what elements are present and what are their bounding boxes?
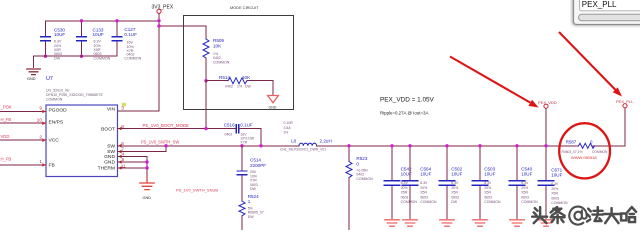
svg-text:VIN: VIN [107,106,116,112]
ground GND2 mode [268,96,279,103]
svg-text:WWW.080918: WWW.080918 [571,155,597,160]
svg-text:GND: GND [104,154,115,160]
svg-text:C514: C514 [250,158,261,163]
svg-text:0: 0 [356,161,359,166]
pin arrow PGOOD [42,110,45,114]
watermark glyph at [569,207,586,225]
svg-text:10UF: 10UF [451,171,462,176]
svg-text:VCC: VCC [49,138,60,144]
red highlight circle around R587 [559,123,610,178]
svg-text:R523: R523 [356,156,367,161]
svg-text:6.3V: 6.3V [484,181,492,185]
svg-text:X5R: X5R [551,192,558,196]
resistor R509 [203,39,209,58]
pin arrow SW7 [118,150,121,154]
wire 3v3 rail left [46,20,160,22]
wire R509 bottom lead [205,58,207,81]
junction c133 bottom [80,55,83,58]
svg-text:6.3V: 6.3V [521,181,529,185]
capacitor C540 [509,144,538,226]
wire SW pin6 [118,145,300,147]
wire PEX_VDD vertical [545,108,547,180]
svg-text:3V3_PEX: 3V3_PEX [152,4,174,10]
svg-text:20%: 20% [521,186,528,190]
svg-text:THERM: THERM [98,166,115,172]
svg-text:9: 9 [39,106,42,112]
ground GND3 under IC [140,177,154,190]
junction c516 return [259,144,262,147]
watermark glyph tiao [551,207,565,223]
svg-text:U7: U7 [46,76,53,82]
svg-text:H_FB: H_FB [1,117,12,122]
pin arrow VCC [42,138,45,142]
svg-text:2.2uH: 2.2uH [320,138,332,143]
capacitor C564 [402,144,437,226]
dialog body [574,0,640,25]
wire BOOT net [118,128,237,130]
wire PGOOD [0,111,46,113]
svg-text:EN/PS: EN/PS [49,119,64,125]
wire terminal down [158,14,160,27]
dialog text field [580,0,640,11]
svg-text:COMMON: COMMON [521,200,538,204]
svg-text:SW: SW [107,144,115,150]
capacitor C530 [41,37,50,41]
capacitor C516 [236,125,239,133]
svg-text:0603: 0603 [484,195,492,199]
wire EN/PS [0,122,46,124]
resistor R514 [228,78,247,84]
svg-text:R0603_07,1%: R0603_07,1% [562,150,583,154]
svg-text:PS_1V0_BOOT_MODE: PS_1V0_BOOT_MODE [143,123,190,128]
svg-text:0603: 0603 [401,195,409,199]
wire C514 top lead [241,146,243,171]
svg-text:COMMON: COMMON [213,60,230,64]
svg-text:H_FB: H_FB [1,157,12,162]
svg-text:CHL_IHLP2020CZ_DWN_V01: CHL_IHLP2020CZ_DWN_V01 [280,148,326,152]
svg-text:16V: 16V [127,40,134,44]
svg-text:6.3V: 6.3V [451,181,459,185]
wire R509 top lead [205,26,207,39]
junction boot/mode [204,127,207,130]
wire cap C133 stubs [81,21,83,56]
svg-text:X5R: X5R [521,191,528,195]
pin arrow THERM [118,166,121,170]
mode circuit frame [184,16,294,110]
pin arrow FB [42,163,45,167]
svg-text:2200PF: 2200PF [250,163,266,168]
svg-text:0.1UF: 0.1UF [124,32,137,37]
yellow mark pin3 [122,103,126,107]
svg-text:1%: 1% [237,85,242,89]
svg-text:3.5A: 3.5A [284,126,292,130]
svg-text:10: 10 [37,117,43,123]
junction gnd5 [145,160,148,163]
dialog capsule bar [579,14,640,20]
wire R514 right lead to gnd [247,81,273,95]
wire R524 bottom [241,216,243,230]
wire rail right of R587 [592,108,625,146]
svg-text:R509: R509 [213,38,224,43]
svg-text:COMMON: COMMON [401,200,418,204]
svg-text:0603: 0603 [521,195,529,199]
watermark glyph da [604,208,620,223]
svg-text:6.3V: 6.3V [420,181,428,185]
svg-text:0603: 0603 [420,195,428,199]
junction sw merge [164,144,167,147]
svg-text:PS_1V0_SWTH_SNUB: PS_1V0_SWTH_SNUB [176,188,218,193]
svg-text:0603: 0603 [551,196,559,200]
capacitor C502 [439,144,462,226]
wire R523 bottom [348,178,350,231]
svg-text:BOOT: BOOT [101,126,115,132]
resistor R587 [579,143,595,148]
wire 3v3 branch to mode circuit [159,25,206,27]
svg-text:GND: GND [269,106,277,110]
resistor R523 [348,146,350,162]
svg-text:PEX_PLL: PEX_PLL [582,0,617,9]
watermark glyph fa [587,207,603,221]
wire C514 to R524 [241,175,243,201]
svg-text:3: 3 [121,106,124,112]
wire GND5 [118,161,148,163]
svg-text:COMMON: COMMON [420,200,437,204]
svg-text:0.10R: 0.10R [284,121,294,125]
wire SW pin7 joins [118,146,167,152]
svg-text:VDD: VDD [1,134,10,139]
wire THERM [118,167,148,169]
svg-text:0.1UF: 0.1UF [240,123,253,128]
wire FB [0,164,46,166]
svg-text:X5R: X5R [484,191,491,195]
ground GND1 [27,69,41,75]
pin arrow GND5 [118,160,121,164]
svg-text:DFN10_P050_X320X40_TH868KTE: DFN10_P050_X320X40_TH868KTE [46,93,103,97]
svg-text:1: 1 [248,199,251,204]
svg-text:L8: L8 [291,138,297,143]
svg-text:2H: 2H [284,131,289,135]
pin arrow GND4 [118,155,121,159]
svg-text:10UF: 10UF [551,172,562,177]
IC U7 body [46,105,118,177]
svg-text:X5R: X5R [420,191,427,195]
wire down to VIN [118,26,160,111]
wire bottom bus to gnd [34,56,118,67]
svg-text:0402: 0402 [225,85,233,89]
svg-text:1: 1 [39,159,42,165]
dialog shadow [572,0,640,26]
svg-text:20%: 20% [484,186,491,190]
svg-text:GND: GND [27,77,36,81]
junction therm [145,166,148,169]
svg-text:COMMON: COMMON [124,56,141,60]
svg-text:PGOOD: PGOOD [49,108,68,114]
svg-text:DW: DW [248,215,255,219]
svg-text:10UF: 10UF [93,32,104,37]
svg-text:10UF: 10UF [521,171,532,176]
wire R514 left lead [206,80,228,82]
svg-text:10K: 10K [242,75,251,80]
svg-text:10UF: 10UF [54,32,65,37]
svg-text:R587: R587 [566,139,577,144]
watermark glyph ha [621,207,636,222]
watermark glyph tou [532,207,547,223]
svg-text:10UF: 10UF [484,171,495,176]
junction R509/R514 [204,79,207,82]
svg-text:GND: GND [143,196,152,200]
svg-text:20%: 20% [420,186,427,190]
wire C516 return to SW [240,129,262,146]
svg-text:COMMON: COMMON [592,150,608,154]
capacitor C127 [112,37,121,41]
svg-text:X5R: X5R [401,191,408,195]
svg-text:COMMON: COMMON [356,177,373,181]
svg-text:Ripple=0.27A @ Iout=3A: Ripple=0.27A @ Iout=3A [380,111,428,116]
wire PEX_VDD rail [317,145,579,147]
svg-text:X7R: X7R [240,141,247,145]
pin arrow SW6 [118,144,121,148]
svg-text:20%: 20% [551,187,558,191]
svg-text:FB: FB [49,162,55,168]
junction rail2 [157,24,160,27]
svg-text:COMMON: COMMON [46,98,63,102]
svg-text:6.3V: 6.3V [551,182,559,186]
terminal 3V3_PEX [157,9,161,13]
pin arrow EN/PS [42,121,45,125]
svg-text:X5R: X5R [451,191,458,195]
wire cap C127 stubs [116,21,118,56]
red arrow to PEX_VDD [450,57,530,103]
svg-text:0603: 0603 [451,195,459,199]
red arrow to PEX_PLL [559,32,616,90]
svg-text:_POK: _POK [0,105,12,110]
svg-text:PEX_VDD = 1.05V: PEX_VDD = 1.05V [380,97,435,104]
capacitor C503 [472,144,501,226]
junction c530 bottom [44,55,47,58]
pin arrow BOOT [118,127,121,131]
svg-text:0402: 0402 [225,133,233,137]
svg-text:MODE CIRCUIT: MODE CIRCUIT [230,5,259,10]
junction c133 top [80,19,83,22]
svg-text:10UF: 10UF [420,171,431,176]
junction rail1 [157,19,160,22]
capacitor C671 [538,167,568,226]
capacitor C514 [237,171,246,175]
wire cap C530 stubs [45,21,47,56]
svg-text:C516: C516 [224,123,235,128]
svg-text:R514: R514 [219,75,230,80]
svg-text:10K: 10K [213,44,222,49]
svg-text:COMMON: COMMON [94,56,111,60]
svg-text:UG_52010_4U: UG_52010_4U [46,88,70,92]
junction c514 [240,144,243,147]
svg-text:COMMON: COMMON [551,201,568,205]
svg-text:DW: DW [250,187,257,191]
wire VCC [0,139,46,141]
capacitor C542 [384,144,417,226]
svg-text:PS_1V0_SWTH_SW: PS_1V0_SWTH_SW [141,139,179,144]
wire GND4 [118,157,148,177]
svg-text:COMMON: COMMON [484,200,501,204]
svg-text:DW: DW [245,85,252,89]
junction c127 top [115,19,118,22]
svg-text:GND: GND [104,160,115,166]
svg-text:20%: 20% [401,186,408,190]
resistor R524 [239,201,245,216]
svg-text:20%: 20% [451,186,458,190]
svg-text:DW: DW [451,200,458,204]
svg-text:2: 2 [39,134,42,140]
wire mode down to BOOT [205,81,207,129]
inductor L8 [299,143,317,146]
svg-text:DW: DW [54,56,61,60]
capacitor C133 [77,37,86,41]
